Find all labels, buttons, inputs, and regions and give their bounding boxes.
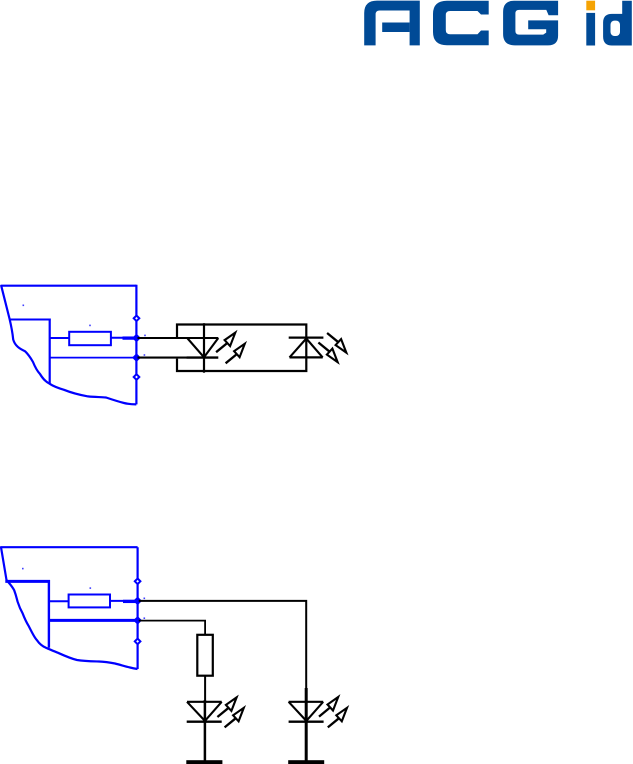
inner pad line vertical (circuit 1) bbox=[49, 319, 51, 384]
LED D1 (circuit 1) bbox=[187, 338, 219, 358]
wire black upper with corner (circuit 2) bbox=[139, 601, 307, 690]
wire black upper (circuit 1) bbox=[138, 337, 188, 339]
inner pad line horizontal (circuit 1) bbox=[10, 319, 51, 321]
LED D4 lead vertical (circuit 2) bbox=[305, 688, 308, 762]
LED D3 emission arrow 2 bbox=[225, 708, 244, 728]
ground (circuit 2 LED D4) bbox=[288, 760, 324, 764]
ACG id logo bbox=[364, 1, 632, 46]
wire black lower with corner (circuit 2) bbox=[139, 621, 205, 635]
bus line (circuit 1) bbox=[135, 285, 137, 405]
wire lower blue (circuit 2) bbox=[49, 619, 138, 622]
inner pad line vertical (circuit 2) bbox=[48, 580, 50, 648]
pin junction open (circuit 1 top) bbox=[134, 316, 140, 322]
wire resistor left (circuit 1) bbox=[50, 337, 69, 339]
reader housing box U1 (circuit 1) bbox=[177, 325, 306, 372]
LED D1 emission arrow 1 bbox=[216, 333, 235, 353]
resistor R3 vertical (circuit 2) bbox=[197, 635, 213, 676]
resistor R2 (circuit 2) bbox=[69, 595, 110, 608]
wire resistor right to bus (circuit 1) bbox=[111, 337, 136, 339]
wire lower blue (circuit 1) bbox=[50, 357, 137, 359]
stray speck dots (circuit 2) bbox=[22, 568, 145, 619]
resistor R1 (circuit 1) bbox=[69, 332, 111, 345]
LED D1 lead vertical (circuit 1) bbox=[203, 323, 205, 373]
LED D2 emission arrow 1 bbox=[327, 333, 346, 353]
LED D2 on housing edge (circuit 1) bbox=[289, 338, 324, 358]
wire resistor right to bus (circuit 2) bbox=[110, 600, 138, 602]
node junction upper (circuit 1) bbox=[133, 334, 140, 341]
LED D3 (circuit 2) bbox=[187, 700, 222, 762]
wire resistor to LED (circuit 2) bbox=[204, 676, 206, 703]
bus line (circuit 2) bbox=[137, 547, 139, 669]
inner pad line horizontal (circuit 2) bbox=[5, 580, 50, 583]
wire thick stub at bus (circuit 2) bbox=[123, 600, 138, 603]
LED D2 emission arrow 2 bbox=[318, 343, 337, 363]
LED D1 emission arrow 2 bbox=[226, 344, 245, 364]
stray speck dots (circuit 1) bbox=[23, 305, 146, 356]
node junction lower (circuit 2) bbox=[134, 617, 141, 624]
node junction upper (circuit 2) bbox=[134, 597, 141, 604]
board fragment outline (circuit 2) bbox=[1, 547, 138, 669]
board fragment outline (circuit 1) bbox=[1, 286, 136, 405]
ground (circuit 2 LED D3) bbox=[186, 760, 222, 764]
wire black lower (circuit 1) bbox=[138, 357, 188, 359]
LED D3 emission arrow 1 bbox=[217, 697, 236, 717]
pin junction open (circuit 2 bottom) bbox=[135, 639, 141, 645]
pin junction open (circuit 2 top) bbox=[135, 579, 141, 585]
LED D4 emission arrow 1 bbox=[319, 697, 338, 717]
LED D4 (circuit 2) bbox=[289, 702, 324, 722]
LED D4 emission arrow 2 bbox=[328, 708, 347, 728]
wire resistor left (circuit 2) bbox=[49, 600, 69, 602]
node junction lower (circuit 1) bbox=[133, 354, 140, 361]
wire thick stub at bus (circuit 1) bbox=[123, 336, 137, 339]
pin junction open (circuit 1 bottom) bbox=[134, 374, 140, 380]
